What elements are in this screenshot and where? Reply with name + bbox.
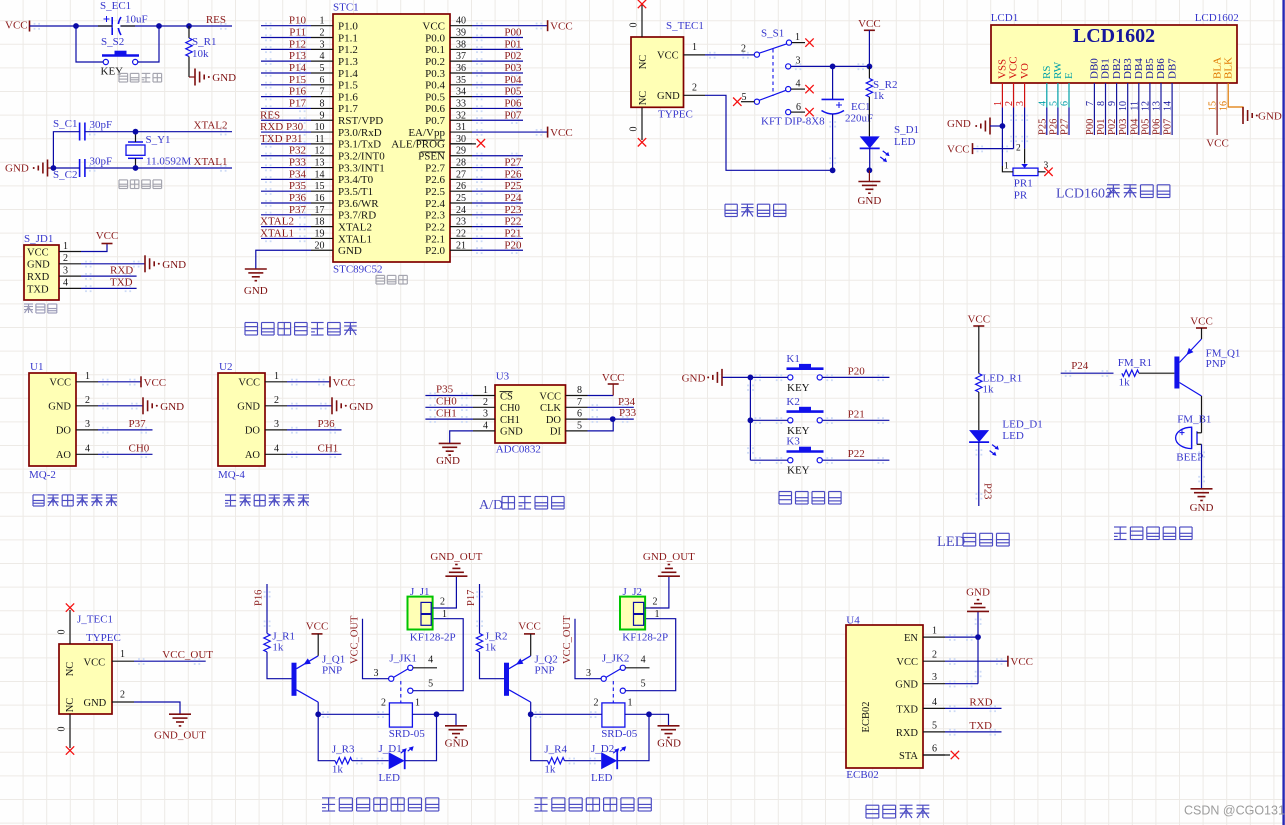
svg-text:ECB02: ECB02 (861, 702, 872, 733)
no-connect X J_TEC1 bottom (66, 746, 74, 754)
pin 5 U3 (566, 430, 588, 432)
pin 6 STC1 (311, 84, 333, 86)
svg-text:S_TEC1: S_TEC1 (666, 20, 704, 32)
svg-text:U3: U3 (496, 371, 510, 383)
wire JD1 pin4 TXD (81, 287, 137, 289)
svg-text:3: 3 (374, 668, 379, 679)
svg-text:K1: K1 (786, 353, 799, 365)
svg-text:1: 1 (320, 16, 325, 27)
wire pin19 left (261, 237, 311, 239)
wire VCC to LED_R1 (978, 326, 980, 374)
svg-text:CH0: CH0 (500, 403, 520, 414)
svg-text:4: 4 (428, 655, 433, 666)
svg-text:P25: P25 (504, 180, 522, 192)
wire VCC_OUT to J_JK2 pin3 (575, 619, 601, 679)
potentiometer PR1 PR (1002, 126, 1048, 202)
pin 3 LCD1 VO wire (1024, 83, 1026, 108)
svg-text:37: 37 (456, 51, 466, 62)
svg-text:1: 1 (628, 698, 633, 709)
wire pin36 right (472, 72, 523, 74)
svg-text:P00: P00 (1085, 119, 1096, 135)
svg-text:S_Y1: S_Y1 (146, 134, 171, 146)
pin 3 S_JD1 (59, 275, 81, 277)
ground GND_OUT (J_TEC1) (169, 713, 191, 715)
label 单片机最小系统 (245, 323, 357, 336)
wire U2 pin3 P36 (287, 429, 342, 431)
node junction EN (975, 634, 981, 640)
svg-text:1: 1 (63, 241, 68, 252)
wire pin1 left (261, 25, 311, 27)
no-connect X PR1 pin3 (1044, 168, 1052, 176)
svg-text:KF128-2P: KF128-2P (622, 632, 668, 644)
svg-text:P05: P05 (1140, 119, 1151, 135)
svg-text:1: 1 (274, 371, 279, 382)
svg-text:VCC_OUT: VCC_OUT (562, 615, 573, 664)
connector S_TEC1 TYPEC body (631, 20, 704, 121)
svg-text:P3.3/INT1: P3.3/INT1 (338, 162, 385, 174)
wire S_S1 pin3 to rail (791, 65, 870, 67)
svg-text:PR: PR (1014, 190, 1028, 202)
node junction LCD VSS (1000, 123, 1006, 129)
no-connect X U4 STA (951, 751, 959, 759)
svg-text:LED: LED (591, 772, 612, 784)
svg-text:LED_D1: LED_D1 (1002, 419, 1042, 431)
connector S_JD1 (24, 233, 59, 300)
wire P17 vertical (479, 584, 481, 633)
svg-text:GND: GND (244, 285, 268, 297)
svg-text:VCC: VCC (144, 377, 167, 389)
pin 8 U3 (566, 395, 588, 397)
wire JD1 pin2 to GND (81, 263, 145, 265)
svg-text:P0.6: P0.6 (425, 103, 445, 115)
svg-text:S_C2: S_C2 (53, 169, 77, 181)
wire U4 pin1 EN to GND (945, 636, 978, 638)
svg-text:P25: P25 (1037, 119, 1048, 135)
pin 9 LCD1 line (1116, 83, 1118, 135)
wire coil pin2 (1) (318, 713, 389, 715)
svg-text:RXD: RXD (969, 696, 992, 708)
svg-text:PR1: PR1 (1014, 178, 1033, 190)
svg-text:XTAL1: XTAL1 (338, 233, 372, 245)
resistor J_R2 1k (476, 631, 507, 654)
svg-text:P20: P20 (848, 365, 866, 377)
wire U4 pin4 RXD (945, 707, 1002, 709)
label 甲烷检测模块 (225, 495, 309, 506)
svg-text:VCC: VCC (5, 20, 28, 32)
power port VCC (pin31) (547, 127, 549, 138)
pin 26 STC1 (450, 190, 472, 192)
svg-text:P16: P16 (289, 86, 307, 98)
pin 16 STC1 (311, 202, 333, 204)
svg-text:CH0: CH0 (436, 396, 457, 408)
svg-text:4: 4 (641, 655, 646, 666)
pin 10 LCD1 line (1127, 83, 1129, 135)
wire pin17 left (261, 214, 311, 216)
resistor S_R1 10k (186, 26, 217, 77)
wire pin25 right (472, 202, 523, 204)
svg-text:FM_R1: FM_R1 (1118, 357, 1152, 369)
buzzer FM_B1 BEEP (1176, 414, 1212, 464)
svg-text:4: 4 (85, 443, 90, 454)
wire J_D1 to junction (1) (405, 714, 436, 760)
svg-text:P01: P01 (504, 38, 521, 50)
svg-text:TYPEC: TYPEC (658, 109, 693, 121)
pin 34 STC1 (450, 96, 472, 98)
node junction reset-left (73, 23, 79, 29)
adc U3 ADC0832 body (495, 371, 566, 456)
wire J_J1 pin2 to GND_OUT (433, 576, 457, 608)
svg-text:VCC: VCC (422, 21, 445, 33)
svg-text:7: 7 (320, 87, 325, 98)
wire K3 left lead (750, 459, 787, 461)
svg-text:23: 23 (456, 217, 466, 228)
svg-text:J_D2: J_D2 (591, 743, 614, 755)
svg-text:5: 5 (641, 678, 646, 689)
svg-text:S_R1: S_R1 (192, 36, 216, 48)
svg-text:2: 2 (274, 395, 279, 406)
svg-text:8: 8 (577, 385, 582, 396)
svg-text:25: 25 (456, 193, 466, 204)
svg-text:J_R4: J_R4 (544, 744, 567, 756)
pin 2 U4 (923, 660, 945, 662)
svg-text:P0.3: P0.3 (425, 68, 445, 80)
node junction crystal gnd (51, 165, 57, 171)
lead J_JK2 pin4 (625, 667, 649, 669)
svg-text:DI: DI (550, 427, 562, 438)
svg-text:5: 5 (428, 678, 433, 689)
svg-text:GND: GND (162, 259, 186, 271)
svg-text:GND: GND (947, 118, 971, 130)
svg-text:P03: P03 (1118, 119, 1129, 135)
svg-text:GND: GND (1190, 502, 1214, 514)
svg-text:VCC: VCC (967, 314, 990, 326)
pin 24 STC1 (450, 214, 472, 216)
crystal S_Y1 11.0592M (126, 132, 191, 168)
svg-text:P24: P24 (1071, 360, 1089, 372)
svg-text:6: 6 (320, 75, 325, 86)
pin 35 STC1 (450, 84, 472, 86)
svg-text:P06: P06 (504, 97, 522, 109)
svg-text:BLK: BLK (1222, 57, 1234, 79)
pin 37 STC1 (450, 60, 472, 62)
svg-text:S_S1: S_S1 (761, 28, 784, 40)
svg-text:P02: P02 (504, 50, 521, 62)
lcd pin names (997, 56, 1235, 79)
pin 8 STC1 (311, 107, 333, 109)
svg-text:STC89C52: STC89C52 (333, 264, 383, 276)
pin 32 STC1 (450, 119, 472, 121)
svg-text:29: 29 (456, 146, 466, 157)
wire VCC to RES (30, 25, 233, 27)
wire collector of J_Q1 (317, 702, 319, 714)
wire VCC to FM_Q1 emitter (1201, 328, 1203, 339)
pin 12 LCD1 line (1149, 83, 1151, 135)
wire pin8 left (261, 107, 311, 109)
connector J_J2 KF128-2P (620, 586, 668, 644)
lead S_S1 pin1 + X (792, 42, 805, 44)
svg-text:2: 2 (653, 597, 658, 608)
sheet border (1282, 0, 1284, 825)
svg-text:0: 0 (57, 727, 68, 732)
svg-text:P26: P26 (504, 168, 522, 180)
svg-text:17: 17 (315, 205, 325, 216)
wire GND vertical (U4) (977, 611, 979, 683)
pin 5 U4 (923, 731, 945, 733)
diode LED_D1 LED (969, 419, 1043, 456)
svg-text:S_D1: S_D1 (894, 124, 919, 136)
pin 31 STC1 (450, 131, 472, 133)
wire pin22 right (472, 237, 523, 239)
svg-text:P27: P27 (1060, 119, 1071, 135)
svg-text:P34: P34 (618, 396, 636, 408)
svg-text:VCC: VCC (84, 658, 106, 669)
svg-text:VCC: VCC (1010, 656, 1033, 668)
ground GND (U4) (967, 610, 989, 612)
svg-text:VCC: VCC (896, 657, 918, 668)
svg-text:RST/VPD: RST/VPD (338, 115, 383, 127)
wire FM_R1 to base (1139, 372, 1174, 374)
power port VCC (pin40) (547, 20, 549, 31)
svg-text:2: 2 (692, 83, 697, 94)
svg-text:3: 3 (63, 265, 68, 276)
wire pin15 left (261, 190, 311, 192)
svg-text:RXD: RXD (896, 728, 919, 739)
node junction S_R1 top (186, 23, 192, 29)
wire U4 pin2 to VCC (945, 660, 1008, 662)
svg-text:11.0592M: 11.0592M (146, 156, 191, 168)
lead S_S1 pin5 + X (741, 101, 754, 103)
wire pin35 right (472, 84, 523, 86)
svg-text:P16: P16 (254, 590, 265, 606)
svg-text:P15: P15 (289, 74, 307, 86)
pin 1 STC1 (311, 25, 333, 27)
svg-text:2: 2 (932, 650, 937, 661)
svg-text:P07: P07 (504, 109, 522, 121)
svg-text:GND: GND (657, 738, 681, 750)
svg-text:10: 10 (315, 122, 325, 133)
svg-text:P02: P02 (1107, 119, 1118, 135)
wire U3 pin3 CH1 (425, 418, 473, 420)
svg-text:P22: P22 (504, 216, 521, 228)
svg-text:4: 4 (274, 443, 279, 454)
wire J_R2 to base (480, 652, 505, 679)
pin 1 U2 (265, 381, 287, 383)
lead S_S1 pin6 + X (791, 111, 805, 113)
wire pin38 right (472, 48, 523, 50)
svg-text:U1: U1 (30, 361, 43, 373)
wire U3 pin8 to VCC (588, 395, 614, 397)
sensor U2 MQ-4 body (218, 361, 265, 481)
wire pin18 left (261, 226, 311, 228)
svg-text:S_S2: S_S2 (101, 36, 124, 48)
wire pin16 left (261, 202, 311, 204)
svg-text:P21: P21 (848, 408, 865, 420)
wire pin10 left (261, 131, 311, 133)
svg-text:RXD: RXD (27, 272, 50, 283)
wire XTAL2 (85, 131, 232, 133)
svg-text:P26: P26 (1048, 119, 1059, 135)
lcd pin numbers (993, 101, 1230, 111)
resistor FM_R1 1k (1118, 357, 1152, 389)
node junction coil left 1 (315, 711, 321, 717)
svg-text:3: 3 (586, 668, 591, 679)
svg-text:P11: P11 (289, 27, 306, 39)
wire TEC1 pin2 to bottom rail (705, 95, 833, 170)
svg-text:GND: GND (5, 163, 29, 175)
svg-text:J_TEC1: J_TEC1 (77, 614, 113, 626)
svg-text:8: 8 (320, 98, 325, 109)
pin 23 STC1 (450, 226, 472, 228)
pin 2 LCD1 VCC wire (1013, 83, 1015, 108)
svg-text:35: 35 (456, 75, 466, 86)
svg-text:XTAL2: XTAL2 (260, 216, 294, 228)
svg-text:32: 32 (456, 110, 466, 121)
wire U1 pin1 to VCC (98, 381, 141, 383)
pin 0 S_TEC1 bottom (641, 107, 643, 140)
svg-text:6: 6 (932, 744, 937, 755)
ground GND (relay 2) (649, 714, 669, 726)
svg-text:STA: STA (899, 751, 918, 762)
wire U3 pin6 P33 (588, 418, 634, 420)
svg-text:GND: GND (212, 72, 236, 84)
svg-text:P00: P00 (504, 27, 522, 39)
svg-text:5: 5 (320, 63, 325, 74)
svg-text:TYPEC: TYPEC (86, 632, 121, 644)
pin 2 STC1 (311, 37, 333, 39)
wire coil pin2 (2) (531, 713, 602, 715)
resistor J_R4 1k (544, 744, 567, 776)
svg-text:AO: AO (56, 450, 72, 461)
svg-text:4: 4 (320, 51, 325, 62)
svg-text:39: 39 (456, 28, 466, 39)
ground GND (U3) (439, 442, 461, 444)
svg-text:J_JK2: J_JK2 (602, 652, 630, 664)
pin 1 U1 (76, 381, 98, 383)
pin 14 LCD1 line (1171, 83, 1173, 135)
pin 4 LCD1 line (1046, 83, 1048, 108)
svg-text:DO: DO (56, 426, 72, 437)
resistor J_R3 1k (332, 744, 355, 776)
svg-text:GND: GND (966, 587, 990, 599)
svg-text:P1.3: P1.3 (338, 56, 358, 68)
svg-text:P24: P24 (504, 192, 522, 204)
svg-text:GND: GND (48, 402, 71, 413)
svg-text:4: 4 (483, 420, 488, 431)
svg-text:VCC: VCC (238, 378, 260, 389)
svg-text:P06: P06 (1152, 119, 1163, 135)
svg-text:P36: P36 (289, 192, 307, 204)
pin 20 STC1 (311, 249, 333, 251)
svg-text:STC1: STC1 (333, 2, 359, 14)
svg-text:5: 5 (932, 720, 937, 731)
svg-text:VCC: VCC (1206, 138, 1229, 150)
pin 25 STC1 (450, 202, 472, 204)
svg-text:NC: NC (638, 55, 649, 70)
svg-text:P2.3: P2.3 (425, 210, 445, 222)
svg-text:1k: 1k (544, 764, 556, 776)
svg-text:VCC: VCC (1190, 316, 1213, 328)
label 继电器控制电路 (1) (322, 798, 439, 811)
pin 3 STC1 (311, 48, 333, 50)
svg-text:J_D1: J_D1 (379, 743, 402, 755)
svg-text:VCC: VCC (539, 391, 561, 402)
svg-text:14: 14 (315, 169, 325, 180)
svg-text:3: 3 (483, 409, 488, 420)
pin 2 J_TEC1 (112, 701, 134, 703)
wire U3 pin7 P34 (588, 406, 634, 408)
wire S_S2 right lead (138, 26, 159, 62)
node junction keys row2 (748, 417, 754, 423)
wire pin39 right (472, 37, 523, 39)
wire J_J2 pin2 to GND_OUT (645, 576, 669, 608)
wire U4 pin6 STA stub (923, 754, 950, 756)
wire pin33 right (472, 107, 523, 109)
svg-text:VCC: VCC (518, 621, 541, 633)
svg-text:33: 33 (456, 98, 466, 109)
pin 1 LCD1 VSS to GND (1001, 83, 1003, 108)
svg-text:11: 11 (315, 134, 325, 145)
wire K1 left lead (750, 376, 787, 378)
relay coil SRD-05 (2) (594, 698, 638, 740)
svg-text:P32: P32 (289, 145, 306, 157)
pin 2 U2 (265, 405, 287, 407)
wire pin32 right (472, 119, 523, 121)
svg-text:ADC0832: ADC0832 (496, 443, 541, 455)
svg-text:1k: 1k (485, 642, 497, 654)
wire pin24 right (472, 214, 523, 216)
svg-text:CS: CS (500, 391, 513, 402)
svg-text:13: 13 (315, 158, 325, 169)
svg-text:0: 0 (629, 127, 640, 132)
pin 6 U3 (566, 418, 588, 420)
svg-text:E: E (1063, 72, 1075, 79)
node junction crystal top (133, 129, 139, 135)
wire J_JK2 pin5 to J_J2 pin1 (625, 619, 675, 691)
wire U3 pin2 CH0 (425, 406, 473, 408)
svg-text:LCD1602: LCD1602 (1073, 25, 1155, 47)
svg-text:CLK: CLK (540, 403, 561, 414)
ground GND (buzzer) (1191, 488, 1213, 490)
svg-text:PNP: PNP (535, 664, 555, 676)
pin 30 STC1 (450, 143, 472, 145)
wire VCC_OUT to J_JK1 pin3 (363, 619, 389, 679)
wire U1 pin4 CH0 (98, 453, 153, 455)
svg-text:NC: NC (65, 662, 76, 677)
node junction reset-right (156, 23, 162, 29)
svg-text:VCC: VCC (27, 247, 49, 258)
svg-text:4: 4 (63, 278, 68, 289)
svg-text:P1.1: P1.1 (338, 32, 358, 44)
svg-text:P35: P35 (289, 180, 307, 192)
pin 11 LCD1 line (1138, 83, 1140, 135)
pin 0 J_TEC1 top (69, 610, 71, 644)
wire pin14 left (261, 178, 311, 180)
svg-text:TXD: TXD (110, 277, 133, 289)
ground GND (U1) (142, 397, 144, 414)
svg-text:1: 1 (120, 649, 125, 660)
svg-text:22: 22 (456, 228, 466, 239)
svg-text:EN: EN (904, 633, 918, 644)
svg-text:1: 1 (1004, 162, 1009, 172)
svg-text:P33: P33 (619, 407, 637, 419)
pin 1 S_TEC1 (684, 54, 706, 56)
connector J_J1 KF128-2P (408, 586, 456, 644)
label 蓝牙模块 (866, 805, 929, 818)
wire pin40 to VCC (472, 25, 548, 27)
svg-text:VCC: VCC (858, 18, 881, 30)
wire GND pin20 (256, 250, 311, 269)
pin 3 U2 (265, 429, 287, 431)
